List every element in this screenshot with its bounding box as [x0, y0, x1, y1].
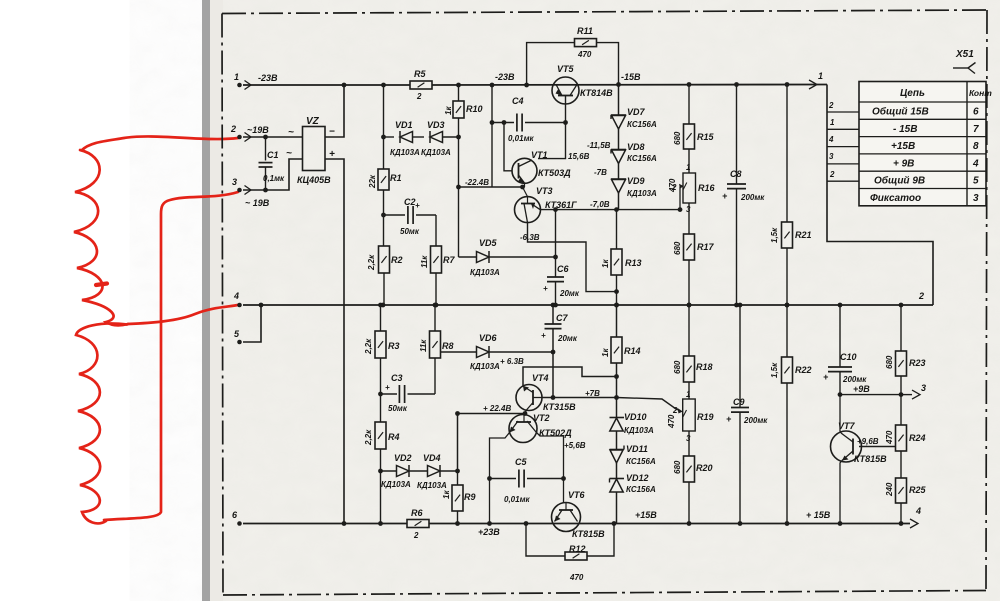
svg-text:КС156А: КС156А: [627, 120, 657, 129]
svg-text:2,2к: 2,2к: [364, 338, 373, 355]
svg-text:~19В: ~19В: [247, 125, 269, 135]
zener diode VD11: [610, 431, 656, 466]
resistor R10: [444, 83, 483, 137]
svg-text:VT4: VT4: [532, 373, 549, 383]
wire +9V line: [838, 384, 904, 397]
svg-text:5: 5: [973, 176, 979, 187]
svg-text:1,5к: 1,5к: [770, 227, 779, 243]
svg-text:680: 680: [673, 131, 682, 145]
svg-text:2: 2: [829, 170, 835, 179]
red pen blob on winding I: [96, 284, 107, 286]
svg-text:+7В: +7В: [585, 389, 600, 398]
svg-text:~: ~: [288, 127, 294, 138]
svg-text:1к: 1к: [601, 348, 610, 357]
svg-text:4: 4: [915, 506, 921, 516]
svg-text:R9: R9: [464, 492, 476, 502]
scanned paper area: [209, 0, 1000, 601]
gray scanner edge bar: [202, 0, 210, 601]
svg-text:КД103А: КД103А: [421, 148, 451, 157]
svg-text:2: 2: [413, 531, 419, 540]
svg-text:+: +: [415, 201, 420, 210]
svg-text:2,2к: 2,2к: [367, 254, 376, 271]
svg-text:+15В: +15В: [891, 141, 915, 152]
wire middle common bus: [243, 303, 933, 342]
svg-text:R10: R10: [466, 104, 483, 114]
transformer winding II (red coil): [76, 323, 127, 523]
capacitor C2: [381, 197, 436, 246]
resistor R3: [364, 303, 400, 394]
connector X51 label: [953, 49, 976, 74]
wire VT2 collector loop left: [487, 433, 509, 526]
svg-text:0,01мк: 0,01мк: [504, 495, 530, 504]
diode VD5: [459, 238, 558, 277]
svg-text:470: 470: [577, 50, 592, 59]
wire VT4 emitter step to R14 column: [523, 367, 617, 386]
resistor R2: [367, 215, 403, 307]
resistor R20: [673, 431, 713, 526]
transistor VT3 КТ361Г: [515, 186, 578, 223]
terminal 6: [232, 510, 242, 526]
resistor R21: [770, 82, 812, 307]
diode VD9: [611, 164, 657, 210]
transistor VT7 КТ815В: [831, 395, 897, 526]
resistor R8: [419, 303, 454, 394]
capacitor C6: [543, 210, 580, 308]
svg-text:1,5к: 1,5к: [770, 362, 779, 378]
capacitor C9: [726, 303, 768, 526]
svg-text:КЦ405В: КЦ405В: [297, 175, 331, 185]
svg-text:1к: 1к: [444, 106, 453, 115]
svg-text:VD2: VD2: [394, 453, 412, 463]
svg-text:Конт: Конт: [969, 88, 992, 98]
svg-text:R4: R4: [388, 432, 400, 442]
svg-text:R20: R20: [696, 463, 713, 473]
svg-text:+: +: [823, 372, 829, 382]
wire terminal2 to VZ: [243, 136, 303, 138]
svg-text:~: ~: [286, 148, 292, 159]
zener diode VD12: [610, 463, 656, 524]
svg-text:11к: 11к: [419, 339, 428, 352]
connector table stub wires: [827, 101, 859, 181]
svg-text:R1: R1: [390, 173, 402, 183]
resistor R18: [673, 303, 713, 399]
diode VD4: [417, 453, 447, 490]
svg-text:470: 470: [667, 414, 676, 429]
svg-text:R8: R8: [442, 341, 454, 351]
diode VD1: [390, 120, 420, 157]
svg-text:-6.3В: -6.3В: [520, 233, 540, 242]
svg-text:R19: R19: [697, 412, 714, 422]
transistor VT5 КТ814В: [552, 64, 613, 123]
bridge rectifier VZ КЦ405В: [286, 116, 335, 185]
svg-text:C4: C4: [512, 96, 524, 106]
svg-text:R3: R3: [388, 341, 400, 351]
svg-text:+ 6.3В: + 6.3В: [500, 357, 524, 366]
svg-text:~ 19В: ~ 19В: [245, 198, 270, 208]
svg-text:VT5: VT5: [557, 64, 575, 74]
svg-text:-23В: -23В: [495, 72, 515, 82]
wire VD1-VD3 branch: [381, 135, 461, 140]
capacitor C4: [490, 83, 568, 187]
svg-text:3: 3: [829, 152, 834, 161]
svg-text:+9,6В: +9,6В: [857, 437, 879, 446]
resistor R22: [770, 303, 812, 526]
svg-text:1: 1: [234, 72, 239, 82]
svg-text:C5: C5: [515, 457, 527, 467]
svg-text:3: 3: [973, 193, 979, 204]
svg-text:6: 6: [973, 107, 979, 118]
svg-text:R25: R25: [909, 485, 927, 495]
svg-text:КД103А: КД103А: [390, 148, 420, 157]
svg-text:VD7: VD7: [627, 107, 646, 117]
svg-text:Цепь: Цепь: [900, 88, 925, 99]
label -11,5V: [587, 141, 611, 150]
svg-text:R22: R22: [795, 365, 812, 375]
capacitor C5: [490, 457, 564, 504]
svg-text:4: 4: [828, 135, 834, 144]
svg-text:3: 3: [232, 177, 237, 187]
svg-text:КТ361Г: КТ361Г: [545, 200, 577, 210]
wire VZ minus to -23V bus: [325, 83, 346, 137]
svg-text:-23В: -23В: [258, 73, 278, 83]
wire pin1 bus to connector and around table: [827, 85, 933, 306]
svg-text:R2: R2: [391, 255, 403, 265]
resistor R23: [885, 303, 926, 395]
capacitor C3: [378, 373, 435, 413]
svg-text:1к: 1к: [601, 259, 610, 268]
wire +23V bottom bus: [243, 523, 910, 525]
red wire from terminal 2 to winding I: [82, 136, 238, 150]
svg-text:2,2к: 2,2к: [364, 429, 373, 446]
svg-text:+ 22.4В: + 22.4В: [483, 404, 511, 413]
svg-text:4: 4: [233, 291, 239, 301]
svg-text:+9В: +9В: [853, 384, 870, 394]
connector table X51: [859, 82, 992, 206]
transistor VT4 КТ315В: [516, 373, 576, 414]
svg-text:−: −: [329, 127, 335, 138]
svg-text:+: +: [541, 331, 546, 340]
arrow to pin 3 (+9V out): [901, 383, 926, 399]
svg-text:+: +: [726, 414, 732, 424]
svg-text:Фиксатоо: Фиксатоо: [870, 193, 921, 204]
svg-text:470: 470: [668, 178, 677, 193]
svg-text:VD12: VD12: [626, 473, 649, 483]
resistor R9: [442, 471, 476, 526]
svg-text:1: 1: [686, 163, 691, 172]
svg-text:+ 9В: + 9В: [893, 158, 914, 169]
label -23V left: [258, 73, 278, 83]
wire VZ plus to +23V bus: [325, 159, 346, 526]
svg-text:20мк: 20мк: [557, 334, 578, 343]
terminal 2: [230, 124, 269, 142]
svg-text:0,01мк: 0,01мк: [508, 134, 534, 143]
svg-text:VT3: VT3: [536, 186, 553, 196]
potentiometer R19: [617, 390, 714, 443]
svg-text:1к: 1к: [442, 490, 451, 499]
label +23V: [478, 527, 500, 537]
svg-text:20мк: 20мк: [559, 289, 580, 298]
label -7V: [594, 168, 607, 177]
diode VD6 КД103А: [441, 333, 553, 371]
svg-text:R12: R12: [569, 544, 586, 554]
svg-text:VT2: VT2: [533, 413, 550, 423]
resistor R12: [524, 521, 617, 582]
label +7V: [585, 389, 600, 398]
svg-text:470: 470: [885, 430, 894, 445]
resistor R24: [885, 395, 926, 478]
svg-text:VD3: VD3: [427, 120, 445, 130]
svg-text:-11,5В: -11,5В: [587, 141, 611, 150]
svg-text:470: 470: [569, 573, 584, 582]
svg-text:C3: C3: [391, 373, 403, 383]
svg-text:2: 2: [672, 406, 678, 415]
svg-text:8: 8: [973, 141, 979, 152]
wire VT3 emitter to -7V line: [540, 200, 680, 212]
svg-text:VT6: VT6: [568, 490, 586, 500]
svg-text:VD1: VD1: [395, 120, 413, 130]
svg-text:C9: C9: [733, 397, 745, 407]
svg-text:0,1мк: 0,1мк: [263, 174, 285, 183]
capacitor C1: [259, 135, 286, 193]
svg-text:VD8: VD8: [627, 142, 645, 152]
resistor R5: [410, 69, 432, 101]
svg-text:VT1: VT1: [531, 150, 548, 160]
svg-text:15,6В: 15,6В: [568, 152, 590, 161]
svg-text:+15В: +15В: [635, 510, 657, 520]
svg-text:11к: 11к: [420, 255, 429, 268]
wire terminal3 to VZ: [243, 159, 303, 190]
resistor R11: [524, 26, 621, 87]
svg-text:КТ814В: КТ814В: [580, 88, 613, 98]
wire VD1 node down to VD5: [458, 137, 460, 257]
svg-text:2: 2: [416, 92, 422, 101]
capacitor C7: [541, 303, 578, 398]
svg-text:3: 3: [921, 383, 926, 393]
svg-text:200мк: 200мк: [740, 193, 765, 202]
terminal 1: [234, 72, 251, 90]
svg-text:R11: R11: [577, 26, 593, 36]
zener diode VD8: [611, 129, 657, 164]
arrow to pin 4 (+15V out): [910, 506, 921, 528]
wire -23V top bus: [243, 84, 827, 87]
zener diode VD7: [611, 85, 657, 130]
svg-text:VD11: VD11: [626, 444, 648, 454]
label +15V bottom middle: [635, 510, 657, 520]
svg-text:7: 7: [973, 124, 979, 135]
svg-text:4: 4: [972, 158, 979, 169]
transistor VT2 КТ502Д: [509, 413, 586, 450]
svg-text:+23В: +23В: [478, 527, 500, 537]
svg-text:КД103А: КД103А: [470, 362, 500, 371]
svg-text:2: 2: [828, 101, 834, 110]
svg-text:-15В: -15В: [621, 72, 641, 82]
resistor R7: [420, 246, 455, 307]
label -15V: [621, 72, 641, 82]
svg-text:680: 680: [673, 241, 682, 255]
wire VT2 emitter loop right: [536, 432, 566, 503]
svg-text:R16: R16: [698, 183, 716, 193]
svg-text:Общий 9В: Общий 9В: [874, 175, 925, 187]
svg-text:R17: R17: [697, 242, 715, 252]
node 2 corner: [918, 291, 924, 301]
svg-text:1: 1: [830, 118, 835, 127]
svg-text:R21: R21: [795, 230, 812, 240]
potentiometer R16: [668, 163, 716, 214]
svg-text:22к: 22к: [368, 174, 377, 189]
svg-text:КТ503Д: КТ503Д: [538, 168, 571, 178]
transformer winding I (red coil): [74, 150, 128, 325]
wire VD2-VD4 branch: [381, 469, 460, 474]
terminal 5: [234, 329, 242, 344]
svg-text:КД103А: КД103А: [627, 189, 657, 198]
svg-text:C8: C8: [730, 169, 742, 179]
resistor R13: [601, 210, 642, 308]
svg-text:КД103А: КД103А: [624, 426, 654, 435]
svg-text:2: 2: [918, 291, 924, 301]
svg-text:+5,6В: +5,6В: [564, 441, 586, 450]
svg-text:КД103А: КД103А: [417, 481, 447, 490]
svg-text:+: +: [543, 284, 548, 293]
svg-text:Общий 15В: Общий 15В: [872, 106, 929, 118]
svg-text:680: 680: [673, 460, 682, 474]
wire VT3 collector staircase: [520, 223, 619, 295]
svg-text:50мк: 50мк: [400, 227, 420, 236]
red wire from winding I to terminal 4: [128, 305, 238, 324]
transistor VT6 КТ815В: [552, 490, 606, 539]
svg-text:R24: R24: [909, 433, 926, 443]
wire +22.4V node to VT2 base: [455, 404, 527, 471]
wire VT5 base to VT1 collector: [538, 123, 590, 162]
svg-text:R18: R18: [696, 362, 713, 372]
svg-text:680: 680: [673, 360, 682, 374]
svg-text:VD10: VD10: [624, 412, 647, 422]
resistor R14: [601, 303, 641, 398]
svg-text:1: 1: [686, 390, 691, 399]
svg-text:КТ815В: КТ815В: [572, 529, 605, 539]
svg-text:680: 680: [885, 355, 894, 369]
svg-text:R7: R7: [443, 255, 455, 265]
svg-text:КС156А: КС156А: [626, 457, 656, 466]
svg-text:R6: R6: [411, 508, 423, 518]
svg-text:C6: C6: [557, 264, 569, 274]
svg-text:VD9: VD9: [627, 176, 645, 186]
svg-text:R13: R13: [625, 258, 642, 268]
svg-text:-22.4В: -22.4В: [465, 178, 489, 187]
svg-text:240: 240: [885, 482, 894, 497]
svg-text:200мк: 200мк: [743, 416, 768, 425]
svg-text:C1: C1: [267, 150, 279, 160]
terminal 4: [233, 291, 242, 307]
resistor R17: [673, 203, 715, 307]
svg-text:C7: C7: [556, 313, 568, 323]
red wire from terminal 3 down left side: [104, 192, 238, 520]
resistor R6: [407, 508, 429, 540]
svg-text:-7,0В: -7,0В: [590, 200, 610, 209]
diode VD10: [610, 398, 655, 436]
svg-text:50мк: 50мк: [388, 404, 408, 413]
arrow to pin 1 (right): [809, 71, 823, 89]
svg-text:КС156А: КС156А: [627, 154, 657, 163]
label -23V right: [495, 72, 515, 82]
svg-text:- 15В: - 15В: [893, 124, 917, 135]
svg-text:КС156А: КС156А: [626, 485, 656, 494]
capacitor C8: [722, 82, 765, 307]
svg-text:-7В: -7В: [594, 168, 607, 177]
diode VD3: [421, 120, 451, 157]
svg-text:КТ815В: КТ815В: [854, 454, 887, 464]
svg-text:R23: R23: [909, 358, 926, 368]
svg-text:VZ: VZ: [306, 116, 320, 127]
resistor R15: [673, 82, 715, 173]
svg-text:VD5: VD5: [479, 238, 498, 248]
resistor R4: [364, 394, 400, 526]
svg-text:R5: R5: [414, 69, 426, 79]
svg-text:2: 2: [230, 124, 236, 134]
transistor VT1 КТ503Д: [502, 120, 572, 187]
capacitor C10: [823, 303, 867, 395]
resistor R25: [885, 478, 927, 526]
svg-text:VT7: VT7: [838, 421, 856, 431]
diode VD2: [381, 453, 412, 489]
resistor R1: [368, 83, 402, 215]
svg-text:200мк: 200мк: [842, 375, 867, 384]
svg-text:C10: C10: [840, 352, 857, 362]
terminal 3: [232, 177, 270, 208]
svg-text:C2: C2: [404, 197, 416, 207]
svg-text:КД103А: КД103А: [381, 480, 411, 489]
svg-text:VD4: VD4: [423, 453, 441, 463]
svg-text:VD6: VD6: [479, 333, 498, 343]
svg-text:+ 15В: + 15В: [806, 510, 831, 520]
drawing border frame: [222, 10, 987, 595]
svg-text:+: +: [722, 191, 728, 201]
svg-text:R14: R14: [624, 346, 641, 356]
svg-text:КТ315В: КТ315В: [543, 402, 576, 412]
label +15V bottom right: [806, 510, 831, 520]
svg-text:R15: R15: [697, 132, 715, 142]
svg-text:1: 1: [818, 71, 823, 81]
svg-text:X51: X51: [955, 49, 974, 60]
wire VT1 emitter node: [456, 178, 525, 189]
svg-text:КД103А: КД103А: [470, 268, 500, 277]
label +6.3V: [500, 357, 524, 366]
svg-text:+: +: [385, 383, 390, 392]
wire VT4 base to +7V line: [542, 395, 619, 400]
